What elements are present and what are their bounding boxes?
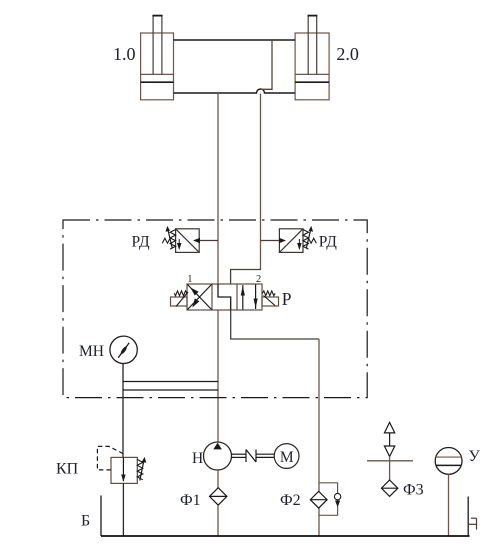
- svg-text:Ф2: Ф2: [280, 492, 301, 509]
- РД2 inner arrow: [298, 239, 301, 249]
- wire filter F2 to tank: [318, 508, 320, 536]
- valve Р position 2 arrows: [242, 285, 244, 310]
- svg-text:Ф3: Ф3: [403, 482, 424, 499]
- pressure switch РД2 square: [279, 229, 303, 253]
- КП adjust arrow: [140, 461, 144, 481]
- wire КП outlet: [122, 483, 124, 536]
- wire manometer tee upper: [123, 381, 218, 383]
- КП flow arrow: [122, 457, 124, 481]
- svg-text:Н: Н: [192, 450, 203, 467]
- svg-text:Р: Р: [282, 289, 292, 309]
- svg-text:КП: КП: [56, 461, 79, 478]
- wire РД2 tap: [261, 240, 283, 242]
- РД1 inner arrow: [178, 239, 181, 249]
- svg-text:Ф1: Ф1: [180, 492, 201, 509]
- wire breather to filter: [389, 457, 391, 481]
- station boundary box (dash-dot): [63, 220, 367, 398]
- cylinder 1.0 body: [141, 33, 174, 100]
- svg-text:РД: РД: [132, 234, 150, 251]
- cylinder 1.0 piston: [141, 81, 174, 83]
- wire return line to tank filter: [231, 310, 319, 339]
- svg-text:М: М: [280, 449, 294, 466]
- cylinder 2.0 piston: [295, 81, 329, 83]
- РД1 arrowhead: [193, 238, 200, 243]
- svg-text:2.0: 2.0: [336, 44, 359, 64]
- level gauge У: [435, 448, 462, 475]
- РД2 adjust arrow: [306, 230, 310, 249]
- svg-text:1.0: 1.0: [113, 44, 136, 64]
- svg-text:Б: Б: [81, 513, 90, 530]
- wire right drain stub: [467, 497, 469, 537]
- wire top bus rod-side: [174, 39, 296, 41]
- wire РД1 tap: [196, 240, 218, 242]
- КП spring: [137, 460, 143, 480]
- wire tank bus Б: [101, 535, 470, 537]
- manometer МН: [110, 336, 137, 363]
- cylinder 2.0 body: [295, 33, 329, 100]
- filter Ф2: [310, 491, 327, 508]
- svg-text:2: 2: [256, 274, 261, 285]
- filter Ф1: [210, 488, 227, 505]
- svg-text:1: 1: [187, 274, 192, 285]
- valve Р right spring: [262, 291, 275, 296]
- wire pump suction: [217, 470, 219, 488]
- КП pilot dashed line: [97, 446, 123, 470]
- Ф2 check valve: [334, 493, 340, 499]
- Ф2 bypass line: [319, 483, 338, 516]
- wire Ф1 to tank: [217, 505, 219, 536]
- РД1 adjust arrow: [168, 230, 172, 249]
- wire manometer tee lower: [123, 389, 218, 391]
- РД2 arrowhead: [279, 238, 286, 243]
- pressure switch РД1 square: [176, 229, 200, 253]
- wire left pipe A-line: [217, 93, 219, 284]
- valve Р body: [187, 284, 262, 310]
- wire pump pressure line: [217, 310, 219, 442]
- motor М: [274, 444, 299, 469]
- valve Р position 1 crossed arrows: [188, 285, 212, 310]
- wire manometer stem: [122, 363, 124, 457]
- wire right pipe B-line: [261, 40, 273, 89]
- tank surface line: [367, 460, 413, 462]
- РД2 spring: [303, 230, 309, 250]
- svg-text:РД: РД: [319, 234, 337, 251]
- valve Р centre position path: [218, 284, 231, 310]
- РД1 spring: [170, 230, 176, 250]
- cylinder 1.0 rod: [153, 16, 162, 74]
- valve Р left solenoid: [171, 297, 188, 306]
- pump Н: [204, 442, 232, 470]
- valve Р left spring: [174, 291, 187, 296]
- plug symbol: [468, 518, 476, 529]
- wire left tank stub: [100, 496, 102, 537]
- svg-text:МН: МН: [79, 343, 104, 360]
- svg-text:У: У: [469, 448, 481, 465]
- relief valve КП square: [111, 457, 137, 483]
- wire bottom bus piston-side with hop: [174, 89, 296, 93]
- valve Р right solenoid: [262, 297, 279, 306]
- cylinder 2.0 rod: [308, 16, 317, 74]
- breather triangles Ф3: [384, 422, 394, 456]
- filter Ф3: [381, 480, 397, 496]
- wire У stem: [448, 474, 450, 536]
- coupling pump-motor: [232, 450, 275, 463]
